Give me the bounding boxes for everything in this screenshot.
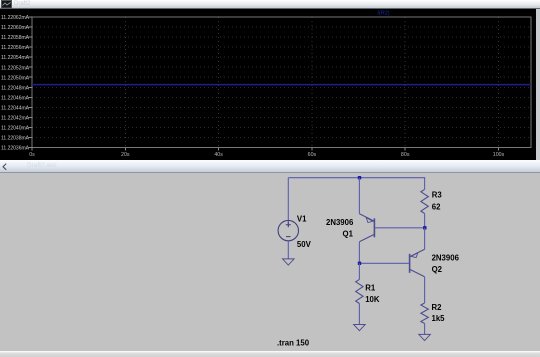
svg-text:11.22040mA: 11.22040mA: [1, 126, 30, 132]
wire V1 top lead: [287, 177, 289, 225]
svg-text:20s: 20s: [121, 152, 130, 158]
svg-text:R1: R1: [365, 283, 376, 292]
y axis labels: [1, 15, 30, 152]
svg-text:11.22058mA: 11.22058mA: [1, 35, 30, 41]
svg-text:2N3906: 2N3906: [326, 218, 354, 227]
svg-text:.tran 150: .tran 150: [277, 338, 310, 347]
wire Q2 base to node C: [360, 262, 410, 264]
wire V1 bottom lead: [287, 240, 289, 258]
svg-text:11.22054mA: 11.22054mA: [1, 55, 30, 61]
svg-text:0s: 0s: [29, 152, 35, 158]
node B junction dot R3/Q1 base/Q2 emitter: [423, 226, 426, 229]
ground under V1: [283, 258, 295, 264]
plot window tab bar: [0, 0, 540, 9]
y axis ticks: [29, 17, 33, 148]
ground under R2: [419, 334, 431, 340]
x axis labels: [29, 152, 504, 158]
svg-text:Q1: Q1: [343, 229, 354, 238]
svg-text:11.22046mA: 11.22046mA: [1, 95, 30, 101]
node A junction dot on top rail: [358, 176, 361, 179]
svg-text:10K: 10K: [365, 295, 380, 304]
wire Q1 collector lead down to node C: [358, 241, 360, 262]
wire R1 bottom lead: [358, 303, 360, 324]
wire Q2 collector lead to R2: [424, 276, 426, 302]
svg-text:11.22052mA: 11.22052mA: [1, 65, 30, 71]
window edge right of plot: [536, 9, 540, 160]
transistor Q1 (2N3906 PNP): [359, 213, 374, 241]
wire Q1 base to node B: [375, 226, 425, 228]
schematic tab faint title: [27, 162, 57, 169]
svg-text:V1: V1: [297, 214, 307, 223]
svg-text:100s: 100s: [493, 152, 505, 158]
svg-text:11.22062mA: 11.22062mA: [1, 15, 30, 21]
V1 plus sign: [286, 222, 291, 227]
svg-text:60s: 60s: [308, 152, 317, 158]
node C junction dot Q1 collector/R1/Q2 base: [358, 261, 361, 264]
svg-text:11.22036mA: 11.22036mA: [1, 146, 30, 152]
schematic window tab bar: [0, 160, 540, 174]
plot grid horizontal dotted lines: [32, 27, 531, 138]
svg-text:2N3906: 2N3906: [432, 253, 460, 262]
svg-text:11.22048mA: 11.22048mA: [1, 85, 30, 91]
plot box border: [32, 17, 531, 148]
svg-text:11.22050mA: 11.22050mA: [1, 75, 30, 81]
wire R3 top lead: [424, 177, 426, 189]
wire R3 bottom lead: [424, 213, 426, 227]
plot grid vertical dotted lines: [125, 17, 498, 148]
wire top rail V1 to R3: [288, 176, 425, 178]
trace I(R2) flat line: [32, 84, 531, 86]
back chevron: [0, 160, 12, 173]
svg-text:R3: R3: [432, 190, 443, 199]
transistor Q2 (2N3906 PNP): [410, 249, 425, 276]
svg-text:11.22060mA: 11.22060mA: [1, 25, 30, 31]
svg-text:11.22042mA: 11.22042mA: [1, 116, 30, 122]
wire R2 bottom lead: [424, 323, 426, 334]
wire Q2 emitter lead from node B: [424, 227, 426, 249]
svg-text:62: 62: [432, 202, 441, 211]
svg-text:40s: 40s: [214, 152, 223, 158]
resistor R2: [421, 303, 428, 324]
wire R1 top lead: [358, 263, 360, 279]
wire Q1 emitter lead from rail: [358, 177, 360, 213]
plot window icon: [1, 0, 13, 9]
svg-text:11.22056mA: 11.22056mA: [1, 45, 30, 51]
svg-text:R2: R2: [432, 303, 443, 312]
svg-text:11.22038mA: 11.22038mA: [1, 136, 30, 142]
plot tab faint title: [14, 1, 30, 7]
status bar: [0, 351, 540, 357]
schematic canvas: [0, 173, 540, 351]
svg-text:1k5: 1k5: [432, 313, 446, 322]
V1 minus sign: [286, 235, 291, 237]
x axis ticks: [32, 148, 499, 151]
ground under R1: [354, 324, 366, 330]
svg-text:50V: 50V: [297, 240, 312, 249]
svg-text:I(R2): I(R2): [377, 11, 389, 17]
svg-text:80s: 80s: [401, 152, 410, 158]
svg-text:Q2: Q2: [432, 265, 443, 274]
waveform plot (black): [0, 9, 536, 160]
voltage source V1 circle: [278, 220, 298, 240]
svg-text:11.22044mA: 11.22044mA: [1, 105, 30, 111]
resistor R3: [421, 189, 428, 213]
resistor R1: [356, 279, 363, 303]
